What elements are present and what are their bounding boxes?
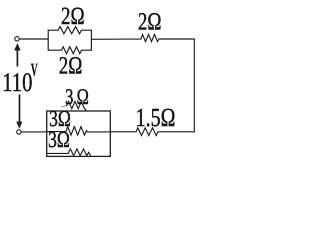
resistor R3 2ohm series with leads bbox=[91, 34, 194, 41]
svg-text:2Ω: 2Ω bbox=[59, 53, 83, 80]
svg-text:V: V bbox=[31, 61, 38, 80]
resistor R6 3ohm middle branch bbox=[47, 127, 111, 136]
resistor R1 2ohm top branch bbox=[48, 27, 91, 34]
wire lower parallel-box rectangle bbox=[47, 111, 111, 156]
svg-text:110: 110 bbox=[2, 69, 32, 98]
terminal top bbox=[15, 37, 19, 41]
wire upper parallel-box right bus bbox=[90, 30, 92, 50]
svg-text:2Ω: 2Ω bbox=[61, 3, 85, 30]
svg-text:2Ω: 2Ω bbox=[138, 9, 162, 36]
svg-text:1.5Ω: 1.5Ω bbox=[136, 104, 176, 133]
resistor R2 2ohm bottom branch bbox=[48, 47, 91, 54]
wire right edge bbox=[193, 39, 195, 132]
arrow down shaft bbox=[19, 95, 21, 123]
arrow down head bbox=[16, 122, 22, 129]
arrow up head bbox=[14, 43, 20, 51]
svg-text:3Ω: 3Ω bbox=[48, 126, 70, 152]
resistor R5 3ohm top branch bbox=[67, 101, 87, 110]
wire bottom left bbox=[21, 131, 47, 133]
terminal bottom bbox=[17, 130, 21, 134]
resistor R7 3ohm bottom branch bbox=[47, 149, 91, 156]
wire upper parallel-box left bus bbox=[47, 30, 49, 50]
resistor R5 3ohm top branch lead bbox=[62, 106, 67, 107]
wire top rail left bbox=[19, 38, 48, 40]
resistor R4 1.5ohm with leads bbox=[110, 128, 194, 136]
arrow up shaft bbox=[16, 50, 18, 67]
